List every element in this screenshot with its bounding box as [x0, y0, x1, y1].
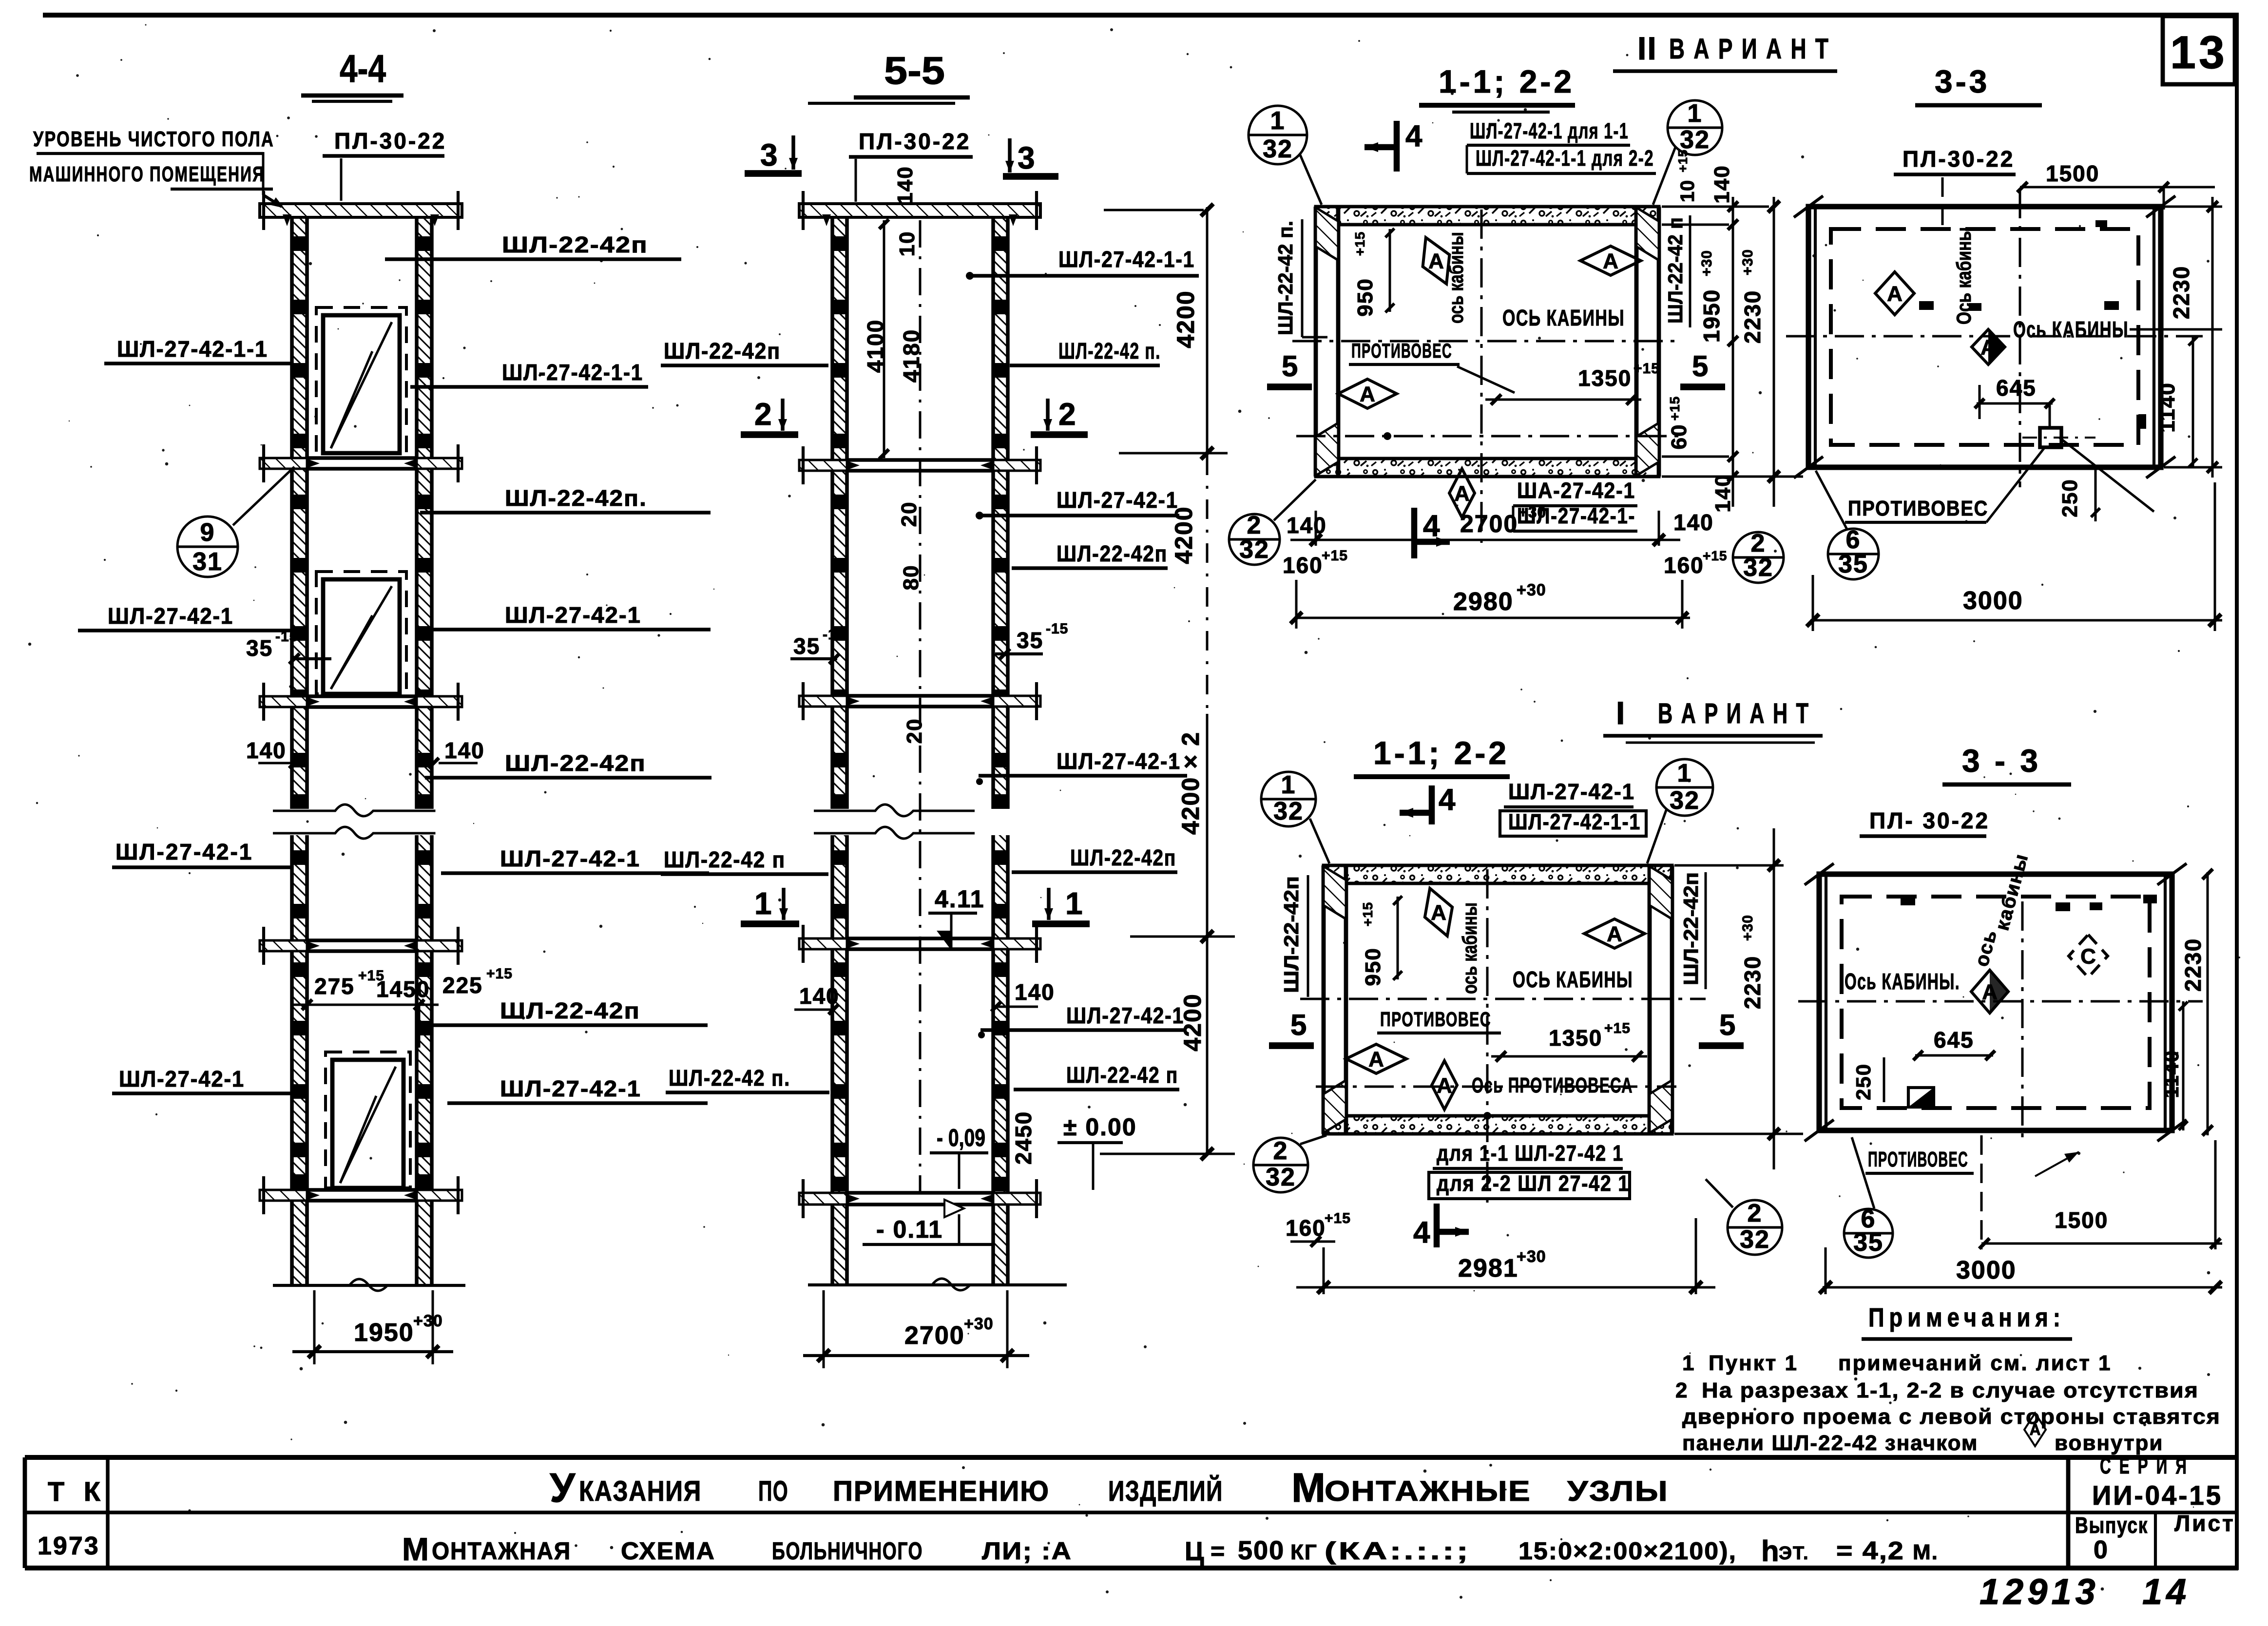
svg-text:20: 20	[903, 718, 926, 744]
svg-text:35: 35	[1017, 628, 1043, 653]
svg-text:500: 500	[1238, 1536, 1285, 1565]
svg-text:2: 2	[1675, 1378, 1688, 1402]
svg-text:2230: 2230	[1740, 290, 1765, 344]
svg-text:+30: +30	[1699, 250, 1715, 276]
svg-text:140: 140	[893, 166, 917, 204]
svg-text:140: 140	[1711, 474, 1735, 512]
svg-text:140: 140	[1673, 510, 1714, 535]
svg-text:1450: 1450	[376, 976, 430, 1002]
svg-text:32: 32	[1743, 554, 1773, 582]
svg-text:ШЛ-22-42 п.: ШЛ-22-42 п.	[1058, 338, 1161, 363]
svg-text:ШЛ-27-42-1: ШЛ-27-42-1	[115, 839, 253, 864]
svg-text:КАЗАНИЯ: КАЗАНИЯ	[579, 1475, 702, 1507]
svg-text:ОНТАЖНАЯ: ОНТАЖНАЯ	[432, 1537, 571, 1565]
svg-text:С: С	[2080, 944, 2096, 968]
svg-text:А: А	[1360, 382, 1375, 406]
svg-text:+15: +15	[1322, 548, 1348, 564]
svg-text:ИЗДЕЛИЙ: ИЗДЕЛИЙ	[1108, 1475, 1223, 1507]
svg-text:1: 1	[1270, 107, 1286, 135]
svg-text:+30: +30	[413, 1312, 443, 1330]
svg-text:5: 5	[1290, 1009, 1307, 1041]
svg-text:32: 32	[1670, 786, 1700, 815]
svg-text:У: У	[550, 1465, 576, 1511]
svg-text:ПРОТИВОВЕС: ПРОТИВОВЕС	[1848, 497, 1988, 520]
svg-text:-15: -15	[823, 627, 845, 643]
svg-text:1500: 1500	[2046, 161, 2099, 186]
svg-text:645: 645	[1934, 1027, 1974, 1052]
svg-text:Пункт 1: Пункт 1	[1709, 1351, 1798, 1375]
svg-text:35: 35	[1838, 550, 1868, 578]
svg-text:31: 31	[192, 548, 223, 576]
svg-text:3-3: 3-3	[1935, 63, 1990, 99]
svg-text:-15: -15	[275, 629, 298, 645]
svg-text:32: 32	[1263, 135, 1293, 163]
svg-text:для 2-2 ШЛ 27-42 1: для 2-2 ШЛ 27-42 1	[1437, 1171, 1630, 1196]
svg-text:1500: 1500	[2055, 1207, 2108, 1233]
svg-text:+15: +15	[1667, 396, 1682, 421]
svg-text:35: 35	[793, 633, 820, 659]
svg-text:А: А	[1887, 282, 1903, 306]
svg-text:+15: +15	[1360, 902, 1375, 927]
svg-text:ША-27-42-1: ША-27-42-1	[1517, 478, 1635, 503]
svg-text:160: 160	[1664, 553, 1704, 578]
svg-text:250: 250	[2058, 478, 2082, 517]
svg-text:ШЛ-22-42 п: ШЛ-22-42 п	[1066, 1062, 1178, 1088]
svg-text:II: II	[1637, 30, 1657, 66]
svg-text:4180: 4180	[899, 329, 924, 383]
svg-text:15:0×2:00×2100),: 15:0×2:00×2100),	[1518, 1537, 1737, 1565]
svg-text:Ось КАБИНЫ: Ось КАБИНЫ	[2013, 317, 2129, 342]
svg-text:М: М	[402, 1531, 429, 1567]
svg-text:ШЛ-22-42п: ШЛ-22-42п	[505, 750, 646, 776]
svg-text:35: 35	[1853, 1228, 1884, 1257]
svg-text:ШЛ-22-42 п: ШЛ-22-42 п	[1664, 217, 1687, 324]
svg-text:ПРОТИВОВЕС: ПРОТИВОВЕС	[1351, 339, 1452, 362]
svg-text:ШЛ-27-42-1: ШЛ-27-42-1	[119, 1066, 245, 1091]
svg-text:12913: 12913	[1980, 1571, 2099, 1612]
svg-text:ШЛ-22-42п: ШЛ-22-42п	[500, 998, 640, 1023]
svg-text:ОСЬ КАБИНЫ: ОСЬ КАБИНЫ	[1513, 967, 1633, 992]
svg-text:60: 60	[1667, 424, 1691, 450]
svg-text:1: 1	[1281, 771, 1296, 799]
svg-text:2230: 2230	[2180, 938, 2206, 992]
svg-text:14: 14	[2142, 1571, 2190, 1612]
svg-text:950: 950	[1361, 947, 1385, 986]
svg-text:140: 140	[1710, 165, 1734, 203]
svg-text:1350: 1350	[1578, 365, 1632, 391]
svg-text:ПЛ- 30-22: ПЛ- 30-22	[1869, 808, 1990, 833]
svg-text:5: 5	[1692, 350, 1708, 383]
svg-text:А: А	[1437, 1073, 1452, 1097]
svg-text:9: 9	[200, 518, 215, 547]
svg-text:УЗЛЫ: УЗЛЫ	[1567, 1475, 1669, 1507]
svg-text:КГ: КГ	[1290, 1540, 1318, 1564]
svg-text:ПЛ-30-22: ПЛ-30-22	[1903, 146, 2015, 172]
svg-text:+30: +30	[1517, 581, 1546, 599]
svg-text:для 1-1 ШЛ-27-42 1: для 1-1 ШЛ-27-42 1	[1437, 1141, 1624, 1166]
svg-text:СХЕМА: СХЕМА	[621, 1537, 715, 1565]
svg-text:БОЛЬНИЧНОГО: БОЛЬНИЧНОГО	[772, 1537, 923, 1565]
svg-text:1350: 1350	[1549, 1025, 1602, 1051]
svg-text:ПО: ПО	[758, 1475, 788, 1507]
svg-text:1: 1	[1677, 759, 1692, 787]
svg-text:+15: +15	[486, 966, 513, 982]
svg-text:ШЛ-22-42п: ШЛ-22-42п	[502, 232, 648, 257]
svg-text:примечаний см. лист 1: примечаний см. лист 1	[1838, 1351, 2112, 1375]
svg-text:4200 × 2: 4200 × 2	[1177, 731, 1204, 835]
svg-text:ОСЬ КАБИНЫ: ОСЬ КАБИНЫ	[1502, 305, 1625, 330]
svg-text:панели ШЛ-22-42 значком: панели ШЛ-22-42 значком	[1682, 1431, 1978, 1455]
svg-text:225: 225	[442, 973, 483, 998]
svg-text:ЛИ; :А: ЛИ; :А	[982, 1537, 1072, 1565]
svg-text:ШЛ-27-42-1: ШЛ-27-42-1	[500, 1076, 641, 1101]
svg-text:3000: 3000	[1963, 587, 2023, 615]
svg-text:80: 80	[899, 565, 923, 591]
svg-text:+30: +30	[1740, 249, 1756, 275]
svg-text:ПЛ-30-22: ПЛ-30-22	[334, 128, 446, 153]
svg-text:ИИ-04-15: ИИ-04-15	[2092, 1480, 2223, 1511]
svg-text:+15: +15	[1634, 361, 1660, 377]
svg-text:МАШИННОГО ПОМЕЩЕНИЯ: МАШИННОГО ПОМЕЩЕНИЯ	[29, 162, 265, 186]
svg-text:1950: 1950	[1699, 289, 1724, 343]
svg-text:ШЛ-27-42-1-1: ШЛ-27-42-1-1	[117, 336, 268, 362]
svg-text:4200: 4200	[1170, 506, 1197, 564]
svg-text:32: 32	[1740, 1225, 1770, 1254]
svg-text:ПЛ-30-22: ПЛ-30-22	[859, 129, 971, 154]
svg-text:140: 140	[246, 738, 287, 763]
svg-text:ось кабины: ось кабины	[1458, 902, 1481, 994]
svg-text:ПРОТИВОВЕС: ПРОТИВОВЕС	[1868, 1148, 1968, 1171]
svg-text:+15: +15	[1703, 548, 1728, 563]
svg-text:1140: 1140	[2160, 1050, 2183, 1098]
svg-text:А: А	[1607, 922, 1622, 946]
svg-text:4: 4	[1413, 1216, 1430, 1249]
svg-text:+15: +15	[1604, 1020, 1631, 1036]
svg-text:Ось КАБИНЫ.: Ось КАБИНЫ.	[1845, 969, 1960, 994]
svg-text:4100: 4100	[863, 319, 888, 373]
svg-text:10: 10	[1677, 180, 1698, 203]
svg-text:+15: +15	[1352, 231, 1367, 256]
svg-text:4: 4	[1405, 119, 1422, 153]
svg-text:160: 160	[1283, 553, 1323, 578]
svg-text:3: 3	[760, 137, 778, 172]
svg-text:250: 250	[1852, 1063, 1875, 1100]
svg-text:2: 2	[1058, 397, 1076, 432]
svg-text:ШЛ-22-42п: ШЛ-22-42п	[1070, 845, 1176, 870]
svg-text:+15: +15	[1325, 1210, 1351, 1226]
svg-text:3000: 3000	[1956, 1256, 2017, 1284]
svg-text:Примечания:: Примечания:	[1868, 1303, 2065, 1332]
svg-text:4: 4	[1423, 509, 1440, 543]
svg-text:В А Р И А Н Т: В А Р И А Н Т	[1658, 698, 1810, 729]
svg-text:3 - 3: 3 - 3	[1962, 743, 2041, 779]
svg-text:+30: +30	[964, 1315, 994, 1333]
svg-text:В А Р И А Н Т: В А Р И А Н Т	[1669, 33, 1830, 65]
svg-text:- 0.11: - 0.11	[876, 1216, 943, 1243]
svg-text:ШЛ-22-42 п.: ШЛ-22-42 п.	[1274, 221, 1297, 335]
svg-text:ШЛ-27-42-1: ШЛ-27-42-1	[1057, 487, 1178, 513]
svg-text:+30: +30	[1740, 915, 1756, 941]
svg-text:дверного проема с левой сторон: дверного проема с левой стороны ставятся	[1682, 1405, 2221, 1429]
svg-text:ШЛ-27-42-1: ШЛ-27-42-1	[108, 603, 233, 629]
svg-text:1950: 1950	[354, 1319, 414, 1347]
svg-text:4.11: 4.11	[935, 885, 985, 913]
svg-text:ШЛ-27-42-1-1 для 2-2: ШЛ-27-42-1-1 для 2-2	[1476, 146, 1654, 171]
svg-text:2: 2	[754, 397, 772, 432]
svg-text:А: А	[1431, 900, 1446, 924]
svg-text:= 4,2: = 4,2	[1836, 1537, 1904, 1565]
svg-text:2: 2	[1748, 1199, 1763, 1227]
svg-text:Ось ПРОТИВОВЕСА: Ось ПРОТИВОВЕСА	[1472, 1073, 1633, 1097]
svg-text:h: h	[1761, 1535, 1779, 1568]
svg-text:0: 0	[2094, 1536, 2109, 1564]
svg-text:2700: 2700	[904, 1321, 965, 1350]
svg-text:На разрезах 1-1, 2-2 в случае: На разрезах 1-1, 2-2 в случае отсутствия	[1702, 1378, 2199, 1402]
svg-text:Ц: Ц	[1185, 1537, 1204, 1566]
svg-text:5-5: 5-5	[884, 49, 945, 92]
svg-text:13: 13	[2170, 27, 2228, 78]
svg-text:4-4: 4-4	[340, 47, 386, 90]
svg-text:1: 1	[754, 886, 772, 921]
svg-text:Лист: Лист	[2174, 1511, 2235, 1536]
svg-text:950: 950	[1353, 278, 1377, 316]
svg-text:+30: +30	[1517, 1247, 1546, 1266]
svg-text:М: М	[1291, 1465, 1326, 1511]
svg-text:ШЛ-27-42-1-1: ШЛ-27-42-1-1	[502, 360, 643, 385]
svg-text:ШЛ-22-42 п.: ШЛ-22-42 п.	[669, 1065, 790, 1090]
svg-text:А: А	[2029, 1421, 2040, 1438]
svg-text:1: 1	[1682, 1351, 1695, 1375]
svg-text:1: 1	[1065, 886, 1083, 921]
svg-text:4200: 4200	[1172, 290, 1199, 348]
svg-text:С Е Р И Я: С Е Р И Я	[2100, 1453, 2189, 1478]
svg-text:ЭТ.: ЭТ.	[1779, 1543, 1809, 1564]
svg-text:2450: 2450	[1011, 1111, 1036, 1165]
svg-text:А: А	[1603, 249, 1618, 273]
svg-text:1140: 1140	[2155, 382, 2179, 432]
svg-text:1: 1	[1688, 99, 1703, 128]
svg-text:- 0,09: - 0,09	[937, 1124, 985, 1151]
svg-text:ШЛ-27-42-1: ШЛ-27-42-1	[1066, 1003, 1184, 1028]
svg-text:4: 4	[1439, 783, 1456, 817]
svg-text:1973: 1973	[38, 1532, 100, 1560]
svg-text:(КА:.:.:;: (КА:.:.:;	[1325, 1537, 1471, 1565]
svg-text:2230: 2230	[1740, 956, 1765, 1009]
svg-text:=: =	[1211, 1537, 1225, 1565]
svg-text:140: 140	[799, 983, 840, 1009]
svg-text:+30: +30	[1518, 503, 1546, 521]
svg-text:1-1; 2-2: 1-1; 2-2	[1373, 735, 1509, 771]
svg-text:645: 645	[1996, 375, 2037, 401]
svg-text:ШЛ-22-42п: ШЛ-22-42п	[1679, 872, 1702, 985]
svg-text:2230: 2230	[2169, 266, 2194, 319]
svg-text:2700: 2700	[1460, 510, 1518, 537]
svg-text:ШЛ-22-42п.: ШЛ-22-42п.	[505, 485, 647, 511]
svg-text:ШЛ-22-42п: ШЛ-22-42п	[664, 338, 781, 363]
svg-text:10: 10	[895, 231, 919, 257]
svg-text:ШЛ-22-42п: ШЛ-22-42п	[1057, 541, 1168, 566]
svg-text:А: А	[1454, 481, 1470, 505]
svg-text:ШЛ-27-42-1: ШЛ-27-42-1	[1057, 748, 1181, 774]
svg-text:М.: М.	[1913, 1540, 1939, 1564]
svg-text:ШЛ-27-42-1-1: ШЛ-27-42-1-1	[1058, 247, 1195, 272]
svg-text:5: 5	[1282, 350, 1298, 383]
svg-text:275: 275	[314, 974, 355, 999]
svg-text:1-1; 2-2: 1-1; 2-2	[1439, 63, 1575, 99]
svg-text:ПРОТИВОВЕС: ПРОТИВОВЕС	[1380, 1008, 1491, 1031]
svg-text:5: 5	[1719, 1009, 1735, 1041]
svg-text:20: 20	[897, 501, 921, 527]
svg-text:Выпуск: Выпуск	[2075, 1512, 2148, 1538]
svg-text:4200: 4200	[1179, 993, 1206, 1051]
svg-text:2981: 2981	[1458, 1254, 1518, 1282]
svg-text:-15: -15	[1046, 621, 1068, 637]
svg-text:32: 32	[1273, 797, 1304, 825]
svg-text:ПРИМЕНЕНИЮ: ПРИМЕНЕНИЮ	[833, 1475, 1050, 1507]
svg-text:32: 32	[1266, 1163, 1296, 1191]
svg-text:ОНТАЖНЫЕ: ОНТАЖНЫЕ	[1325, 1475, 1531, 1507]
svg-text:вовнутри: вовнутри	[2055, 1431, 2163, 1455]
svg-text:3: 3	[1018, 140, 1035, 175]
svg-text:35: 35	[246, 635, 273, 661]
svg-text:140: 140	[444, 738, 485, 763]
svg-text:УРОВЕНЬ ЧИСТОГО ПОЛА: УРОВЕНЬ ЧИСТОГО ПОЛА	[33, 127, 274, 151]
svg-text:+15: +15	[1675, 149, 1690, 172]
svg-text:2: 2	[1273, 1137, 1288, 1165]
svg-text:ШЛ-27-42-1 для 1-1: ШЛ-27-42-1 для 1-1	[1470, 118, 1629, 143]
svg-text:ШЛ-27-42-1: ШЛ-27-42-1	[505, 602, 641, 628]
svg-text:I: I	[1616, 695, 1626, 731]
svg-text:32: 32	[1239, 536, 1269, 564]
svg-text:2980: 2980	[1453, 588, 1514, 616]
svg-text:ШЛ-22-42 п: ШЛ-22-42 п	[664, 847, 786, 872]
svg-text:ШЛ-27-42-1: ШЛ-27-42-1	[500, 846, 640, 871]
svg-text:ШЛ-27-42-1: ШЛ-27-42-1	[1508, 779, 1635, 804]
svg-text:140: 140	[1015, 979, 1055, 1005]
svg-text:А: А	[1428, 249, 1444, 273]
svg-text:А: А	[1368, 1047, 1384, 1071]
svg-text:ШЛ-27-42-1-1: ШЛ-27-42-1-1	[1508, 809, 1641, 834]
svg-text:± 0.00: ± 0.00	[1063, 1113, 1137, 1141]
svg-text:Т К: Т К	[48, 1476, 106, 1507]
svg-text:ШЛ-22-42п: ШЛ-22-42п	[1280, 876, 1303, 993]
